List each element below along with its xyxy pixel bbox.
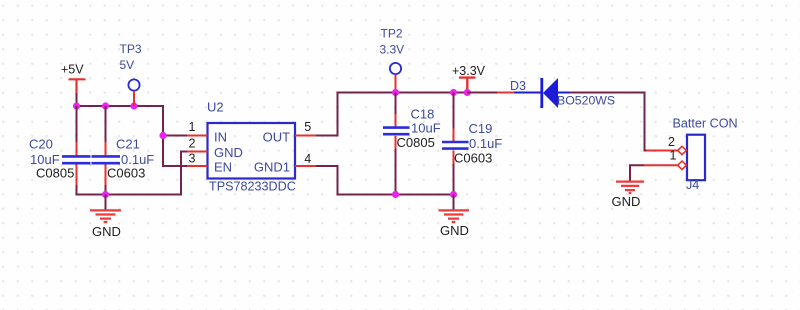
wire bus drop to IN/EN bbox=[163, 105, 188, 166]
svg-text:1: 1 bbox=[189, 120, 196, 134]
svg-text:C0603: C0603 bbox=[107, 166, 145, 181]
svg-text:GND: GND bbox=[612, 194, 641, 209]
svg-text:3: 3 bbox=[189, 151, 196, 165]
wire C19 bottom bbox=[453, 164, 455, 195]
capacitor C21 bbox=[92, 106, 155, 186]
node junction GND tap left bbox=[102, 191, 109, 198]
svg-text:C0805: C0805 bbox=[36, 166, 74, 181]
svg-text:2: 2 bbox=[668, 135, 675, 149]
capacitor C20 bbox=[29, 106, 91, 186]
node junction IN tap bbox=[159, 132, 166, 139]
pin 1 bbox=[187, 120, 208, 136]
svg-text:GND: GND bbox=[214, 145, 243, 160]
svg-text:OUT: OUT bbox=[263, 130, 291, 145]
svg-text:Batter CON: Batter CON bbox=[673, 117, 738, 131]
capacitor C18 bbox=[383, 93, 441, 151]
svg-text:3.3V: 3.3V bbox=[380, 43, 405, 57]
wire C21 bottom bbox=[105, 185, 107, 195]
wire +5V to bus bbox=[76, 94, 78, 107]
pin 2 bbox=[187, 137, 208, 152]
node junction C19 top bbox=[450, 89, 457, 96]
svg-text:0.1uF: 0.1uF bbox=[469, 136, 502, 151]
svg-text:BO520WS: BO520WS bbox=[557, 94, 615, 108]
wire GND1 to bottom bus bbox=[316, 166, 454, 195]
svg-text:TPS78233DDC: TPS78233DDC bbox=[209, 180, 296, 194]
testpoint TP3 bbox=[120, 42, 142, 106]
pin 1 connector bbox=[670, 149, 687, 170]
svg-text:5: 5 bbox=[304, 120, 311, 134]
svg-text:GND1: GND1 bbox=[254, 160, 290, 175]
diode D3 BO520WS bbox=[497, 78, 615, 108]
svg-text:+5V: +5V bbox=[61, 63, 84, 77]
node junction C18/TP2 bbox=[392, 89, 399, 96]
svg-text:TP3: TP3 bbox=[120, 42, 142, 56]
node junction +5V/C20 bbox=[73, 102, 80, 109]
node junction TP3 bbox=[130, 102, 137, 109]
wire C20 bottom to bus bbox=[77, 185, 182, 195]
testpoint TP2 bbox=[380, 27, 405, 93]
ground right bbox=[612, 182, 645, 209]
power symbol +5V bbox=[61, 63, 86, 96]
power symbol +3.3V bbox=[452, 64, 486, 93]
wire diode to connector pin 2 bbox=[570, 93, 649, 151]
wire OUT to top bus bbox=[316, 93, 498, 136]
svg-text:GND: GND bbox=[440, 223, 469, 238]
svg-text:D3: D3 bbox=[510, 79, 526, 93]
wire top-left bus bbox=[77, 105, 164, 107]
svg-text:IN: IN bbox=[214, 130, 227, 145]
pin 5 bbox=[295, 120, 317, 136]
svg-text:1: 1 bbox=[670, 149, 677, 163]
wire connector pin 1 to ground bbox=[630, 165, 645, 181]
svg-text:C20: C20 bbox=[29, 137, 53, 152]
svg-text:+3.3V: +3.3V bbox=[452, 64, 486, 78]
svg-text:GND: GND bbox=[92, 224, 121, 239]
svg-text:EN: EN bbox=[214, 160, 232, 175]
svg-text:2: 2 bbox=[189, 137, 196, 151]
node junction C21 top bbox=[102, 102, 109, 109]
pin 3 bbox=[187, 151, 208, 166]
capacitor C19 bbox=[442, 93, 502, 166]
wire to pin 1 IN bbox=[163, 135, 188, 137]
svg-text:C18: C18 bbox=[411, 107, 435, 122]
svg-text:C0805: C0805 bbox=[397, 135, 435, 150]
svg-text:J4: J4 bbox=[686, 178, 699, 192]
svg-text:TP2: TP2 bbox=[381, 27, 403, 41]
svg-text:5V: 5V bbox=[120, 58, 135, 72]
node junction GND tap middle bbox=[450, 191, 457, 198]
wire red pin 2 stub bbox=[647, 150, 678, 152]
pin 2 connector bbox=[668, 135, 686, 155]
node junction +3.3V bbox=[464, 89, 471, 96]
wire C18 bottom bbox=[395, 149, 397, 195]
ground middle bbox=[439, 195, 470, 239]
pin 4 bbox=[295, 152, 317, 166]
IC U2 regulator TPS78233DDC bbox=[207, 100, 296, 194]
wire +3.3V bus to diode bbox=[467, 92, 498, 94]
wire GND riser to pin2 bbox=[181, 152, 188, 196]
svg-text:U2: U2 bbox=[207, 100, 224, 115]
ground left bbox=[90, 195, 121, 240]
svg-text:C0603: C0603 bbox=[454, 151, 492, 166]
connector J4 Batter CON bbox=[673, 117, 738, 193]
svg-text:4: 4 bbox=[304, 152, 311, 166]
svg-text:C21: C21 bbox=[116, 137, 140, 152]
node junction C18 bottom bbox=[392, 191, 399, 198]
svg-text:C19: C19 bbox=[469, 121, 493, 136]
svg-text:10uF: 10uF bbox=[411, 121, 441, 136]
wire red pin 1 stub bbox=[644, 164, 678, 166]
